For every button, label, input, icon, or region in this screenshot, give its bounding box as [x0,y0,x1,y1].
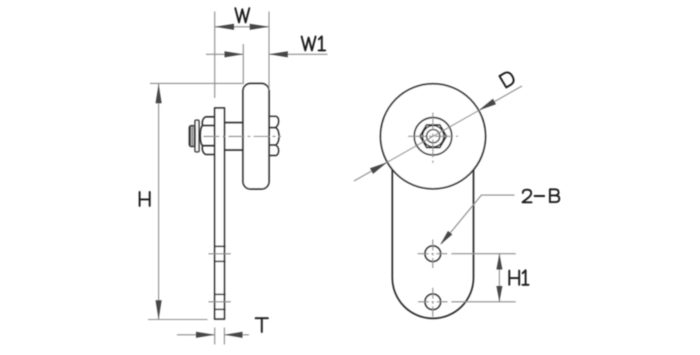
bolt shaft [224,123,243,151]
label H [140,192,150,206]
dimension H1 extension lines [451,254,515,302]
dimension H arrows [156,84,162,103]
dimension W line [215,26,269,28]
label H1 [509,271,519,285]
dimension W1 arrows [225,51,244,57]
label D (rotated) [499,70,515,87]
dimension W1 line [206,53,328,55]
bracket plate (front view) [392,170,473,319]
dimension D arrows [479,99,496,111]
leader 2-B [442,195,515,243]
dimension H extension lines [148,83,243,319]
hole B lower crosshair [418,288,449,317]
label 2-B [523,190,532,203]
dimension H line [158,84,160,320]
hole upper (side view edge lines) [214,246,225,261]
hole lower centerline [208,301,230,303]
label W [235,8,249,22]
bolt threaded end [189,126,195,147]
dimension W extension lines [215,12,269,99]
axle hex [420,125,446,148]
dimension H1 arrows [496,254,502,270]
hex nut right (behind roller) [269,116,279,155]
bore circle [427,130,440,143]
dimension T extension lines [215,328,225,345]
dimension W1 extension line (roller left edge) [242,44,244,84]
label T [256,318,268,332]
hole B lower [425,294,441,310]
chamfer circle [423,126,444,147]
hole B upper [425,246,441,262]
dimension H1 line [498,254,500,302]
label W1 [302,37,316,51]
wheel outer circle [381,84,486,189]
dimension D line [354,86,522,181]
hole upper centerline [208,253,230,255]
hole lower (side view edge lines) [214,294,225,309]
hole B upper crosshair [418,240,449,269]
dimension T arrows [196,332,215,338]
centerline bolt axis [204,135,282,137]
bracket plate (side view) [215,108,225,319]
wheel centerlines [408,113,458,164]
washer [195,120,199,152]
roller (side view) [243,84,269,190]
hex nut left (side view) [200,117,215,155]
hub circle [414,118,452,156]
dimension T line [177,334,249,336]
dimension W arrows [215,24,234,30]
